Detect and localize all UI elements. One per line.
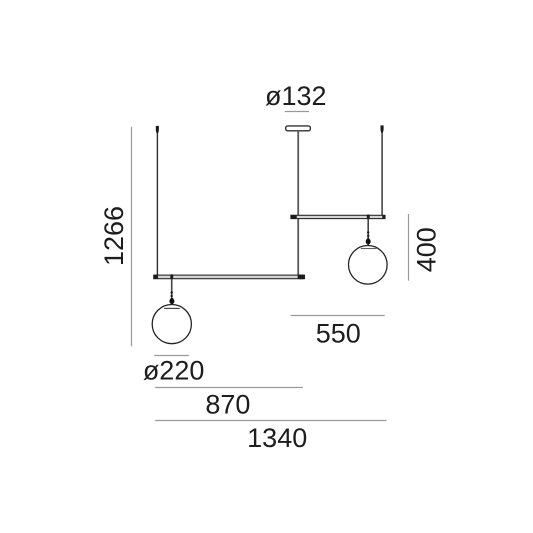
svg-text:1266: 1266 bbox=[99, 206, 129, 266]
left suspension wire top cap bbox=[156, 126, 159, 133]
upper pendant wire bbox=[367, 219, 369, 240]
dimension label 1266 (rotated) bbox=[99, 206, 129, 266]
lower bar left end cap bbox=[154, 275, 159, 279]
lower glass sphere bbox=[152, 305, 191, 344]
right suspension wire top cap bbox=[381, 125, 384, 132]
canopy bbox=[286, 126, 311, 131]
lower sphere neck collar bbox=[164, 307, 180, 309]
dimension line 1266 (vertical, left) bbox=[131, 127, 133, 346]
dimension label ø220 bbox=[143, 355, 205, 385]
svg-text:1340: 1340 bbox=[247, 423, 307, 453]
dimension label 870 bbox=[205, 390, 250, 420]
dimension line 870 bbox=[155, 387, 303, 389]
lower pendant junction on bar bbox=[170, 274, 173, 279]
dimension line ø132 bbox=[285, 111, 309, 113]
svg-text:ø220: ø220 bbox=[143, 355, 205, 385]
lower socket fitting bbox=[169, 298, 174, 305]
svg-text:ø132: ø132 bbox=[265, 81, 327, 111]
dimension label 550 bbox=[316, 319, 361, 349]
upper pendant wire beads bbox=[367, 231, 369, 233]
upper bar right end cap bbox=[382, 215, 385, 219]
svg-text:550: 550 bbox=[316, 319, 361, 349]
svg-text:400: 400 bbox=[412, 227, 442, 272]
dimension line 400 (vertical, right) bbox=[408, 214, 410, 281]
upper glass sphere bbox=[349, 245, 388, 284]
dimension line 1340 bbox=[155, 420, 386, 422]
dimension label 400 (rotated) bbox=[412, 227, 442, 272]
stem rod from canopy to lower bar bbox=[297, 131, 299, 278]
dimension line ø220 bbox=[154, 355, 189, 357]
right suspension wire bbox=[381, 133, 383, 216]
upper socket fitting bbox=[366, 238, 371, 245]
dimension label 1340 bbox=[247, 423, 307, 453]
lower pendant wire beads bbox=[171, 291, 173, 293]
svg-text:870: 870 bbox=[205, 390, 250, 420]
lower bar right end cap bbox=[298, 275, 305, 279]
upper bar left end cap bbox=[291, 215, 297, 219]
dimension line 550 bbox=[291, 315, 385, 317]
dimension label ø132 bbox=[265, 81, 327, 111]
lower pendant wire bbox=[171, 279, 173, 300]
upper pendant junction on bar bbox=[367, 215, 370, 220]
upper sphere neck collar bbox=[361, 248, 377, 250]
lower bar bbox=[154, 275, 305, 279]
upper bar bbox=[291, 215, 385, 218]
left suspension wire bbox=[156, 133, 158, 275]
